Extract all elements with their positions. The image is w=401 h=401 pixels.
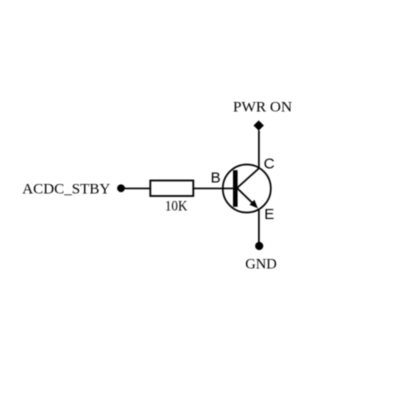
svg-text:B: B — [211, 169, 221, 186]
svg-text:10K: 10K — [165, 198, 187, 215]
transistor Q1 emitter arrowhead — [250, 200, 258, 209]
wire node A to resistor — [125, 187, 151, 189]
transistor Q1 body circle — [223, 165, 271, 213]
wire collector to PWR ON terminal — [258, 131, 260, 169]
svg-text:ACDC_STBY: ACDC_STBY — [22, 181, 110, 197]
svg-text:C: C — [264, 155, 275, 172]
svg-text:GND: GND — [245, 257, 277, 273]
power terminal diamond PWR ON — [254, 120, 264, 130]
wire resistor to base B — [193, 187, 233, 189]
transistor Q1 base bar — [233, 170, 238, 207]
transistor Q1 emitter stroke — [237, 188, 254, 205]
resistor R1 body — [150, 181, 193, 197]
svg-text:PWR ON: PWR ON — [233, 100, 292, 116]
node dot GND — [255, 242, 263, 250]
svg-text:E: E — [264, 206, 274, 223]
wire emitter to GND node — [258, 209, 260, 244]
transistor Q1 collector stroke — [237, 168, 259, 188]
node dot A (ACDC_STBY junction) — [117, 184, 125, 192]
